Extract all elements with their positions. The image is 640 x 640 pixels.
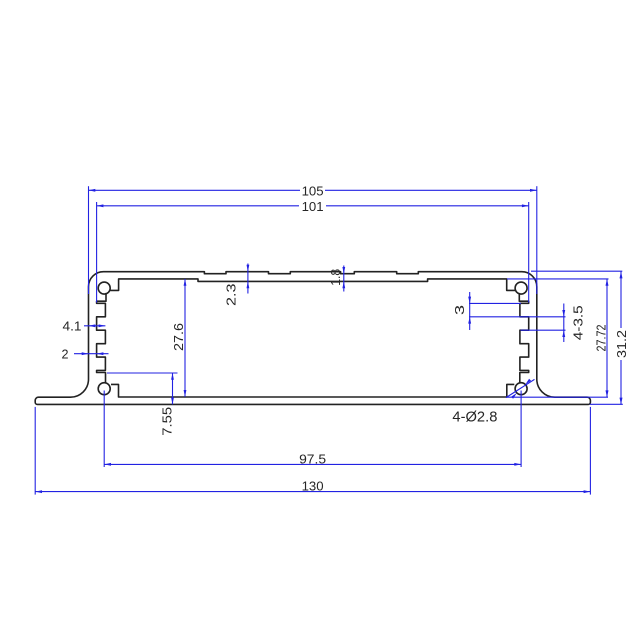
dimension 105 (overall body width) [89, 189, 301, 191]
svg-text:2.3: 2.3 [223, 284, 238, 307]
svg-text:3: 3 [452, 305, 467, 315]
screw boss bottom-left [98, 383, 110, 395]
svg-text:130: 130 [302, 479, 324, 494]
svg-text:101: 101 [302, 199, 324, 214]
left wall inner serrations (screw-channel teeth) [97, 293, 106, 383]
inner cavity top wall (PCB ledge with steps) [110, 279, 515, 291]
svg-text:4-3.5: 4-3.5 [570, 305, 585, 340]
svg-text:7.55: 7.55 [160, 407, 175, 436]
dimension 1.8 (top wall thickness at recess) [343, 266, 345, 292]
svg-text:97.5: 97.5 [299, 451, 326, 466]
dimension 31.2 (overall height) [531, 270, 622, 272]
svg-text:4-Ø2.8: 4-Ø2.8 [452, 410, 497, 426]
extension lines for 101 dimension [96, 202, 98, 303]
svg-text:2: 2 [62, 346, 69, 361]
dimension 4-3.5 (slot pitch, right wall) [521, 316, 566, 318]
svg-text:105: 105 [302, 184, 324, 199]
dimension 27.72 (ledge to base top) [507, 278, 609, 280]
dimension 101 (inner width) [97, 205, 299, 207]
dimension 27.6 (inner cavity height) [184, 279, 186, 397]
dimension 3 (tooth height, right wall) [469, 302, 521, 304]
svg-text:27.72: 27.72 [594, 325, 609, 352]
leader 4-dia2.8 (screw hole callout) [506, 379, 535, 397]
screw boss bottom-right [515, 383, 527, 395]
dimension 2.3 (top wall thickness at rib) [247, 264, 249, 294]
dimension 4.1 (wall plus tooth depth) [84, 325, 105, 327]
extension lines for 105 dimension [88, 186, 90, 294]
dimension 7.55 (boss centre to base bottom) [107, 372, 178, 374]
dimension 2 (side wall thickness) [74, 353, 109, 355]
svg-text:4.1: 4.1 [63, 318, 82, 333]
profile outer contour (extrusion body with base flange) [35, 272, 590, 405]
right wall inner serrations (screw-channel teeth) [519, 293, 528, 383]
svg-text:1.8: 1.8 [328, 269, 343, 286]
screw boss top-right [515, 282, 527, 294]
dimension 130 (overall base width) [35, 491, 590, 493]
dimension 97.5 (screw hole spacing) [104, 463, 521, 465]
svg-text:27.6: 27.6 [171, 323, 186, 351]
cavity floor with bottom boss notches [111, 384, 514, 397]
screw boss top-left [98, 282, 110, 294]
extension lines for 130 dimension [34, 407, 36, 495]
svg-text:31.2: 31.2 [614, 330, 629, 358]
extension lines for 97.5 dimension [103, 391, 105, 468]
